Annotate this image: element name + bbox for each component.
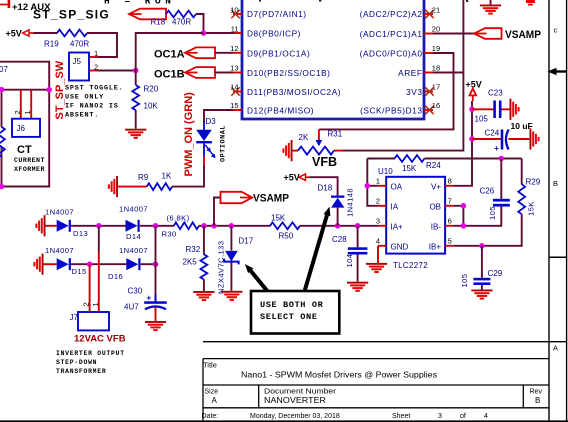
- svg-text:6: 6: [448, 216, 452, 225]
- diode D13: [57, 220, 71, 232]
- svg-text:D10(PB2/SS/OC1B): D10(PB2/SS/OC1B): [247, 68, 331, 78]
- svg-text:10 uF: 10 uF: [511, 121, 533, 131]
- svg-text:(ADC2/PC2)A2: (ADC2/PC2)A2: [360, 9, 423, 19]
- svg-text:D11(PB3/MOSI/OC2A): D11(PB3/MOSI/OC2A): [247, 87, 341, 97]
- wire R20 node down to resistor: [135, 71, 137, 86]
- svg-text:A: A: [212, 396, 218, 405]
- wire ground to R9: [118, 186, 147, 188]
- ground under C28: [347, 282, 368, 292]
- wire D14 to R30: [140, 225, 174, 227]
- svg-text:c: c: [554, 26, 558, 35]
- svg-text:D3: D3: [206, 117, 217, 126]
- svg-text:105: 105: [460, 274, 469, 288]
- wire pin 15 to LED: [204, 110, 233, 122]
- junction: [201, 30, 207, 36]
- svg-text:A: A: [553, 344, 558, 353]
- clipped text remnant ticks: [259, 0, 261, 2]
- svg-text:1N4148: 1N4148: [346, 188, 355, 217]
- potentiometer R31: [298, 147, 334, 155]
- port connector OC1B: [185, 67, 215, 78]
- J7 pin 1 wire: [98, 226, 100, 252]
- wire C26 bottom to pin 6: [453, 207, 501, 226]
- U10 pin 2 stub: [378, 205, 386, 207]
- capacitor C23: [493, 101, 501, 119]
- svg-text:07: 07: [0, 65, 8, 74]
- callout arrow to D17: [245, 264, 268, 291]
- wire CT row: [0, 89, 49, 91]
- wire left vertical lower: [1, 147, 3, 187]
- svg-text:IB+: IB+: [429, 242, 442, 251]
- svg-text:OA: OA: [391, 182, 403, 191]
- svg-text:H = RON: H = RON: [104, 0, 175, 7]
- wire wiper to pin 19: [319, 53, 453, 129]
- svg-text:D12(PB4/MISO): D12(PB4/MISO): [247, 105, 314, 115]
- svg-text:STEP-DOWN: STEP-DOWN: [56, 359, 97, 366]
- svg-text:D14: D14: [126, 232, 141, 241]
- svg-text:15K: 15K: [527, 201, 536, 216]
- resistor R19: [57, 30, 87, 37]
- wire left vertical upper: [1, 90, 3, 127]
- resistor R9: [147, 183, 172, 190]
- svg-text:R32: R32: [186, 245, 201, 254]
- capacitor C29: [473, 278, 490, 285]
- diode D15: [57, 258, 71, 270]
- svg-text:OB: OB: [429, 202, 441, 211]
- MCU pin 10 no-connect X: [231, 10, 239, 18]
- svg-text:VFB: VFB: [312, 155, 337, 169]
- svg-text:1: 1: [23, 110, 32, 114]
- svg-text:R50: R50: [279, 231, 294, 240]
- svg-text:+: +: [147, 294, 152, 303]
- wire pin 18 to vertical: [433, 72, 463, 74]
- title block separator line: [203, 341, 567, 343]
- svg-text:C28: C28: [332, 235, 347, 244]
- junction J7 pin1 tap: [96, 223, 102, 229]
- MCU pin 14 no-connect X: [231, 87, 239, 95]
- svg-text:R30: R30: [162, 230, 177, 239]
- svg-text:ST_SP_SIG: ST_SP_SIG: [33, 8, 110, 22]
- svg-text:SPST TOGGLE.: SPST TOGGLE.: [65, 85, 124, 93]
- svg-text:2: 2: [376, 196, 380, 205]
- svg-text:470R: 470R: [172, 18, 191, 27]
- capacitor C30 (polarized): [144, 294, 167, 310]
- wire C28 to ground: [357, 255, 359, 282]
- svg-text:14: 14: [230, 83, 238, 92]
- U10 pin 4 stub: [378, 245, 386, 247]
- wire R20 node up and right to ST_SP_SIG junction: [136, 33, 204, 71]
- capacitor C24 (polarized): [494, 130, 508, 154]
- MCU pin 17 no-connect X: [425, 87, 433, 95]
- MCU pin 18 stub: [424, 72, 433, 74]
- MCU pin 16 stub: [424, 109, 433, 111]
- U10 body: [386, 177, 445, 254]
- svg-text:R19: R19: [44, 40, 59, 49]
- svg-text:2K: 2K: [299, 133, 309, 142]
- power symbol +5V (left): [23, 30, 34, 36]
- svg-text:C24: C24: [485, 129, 500, 138]
- svg-text:1N4007: 1N4007: [45, 246, 74, 255]
- svg-text:12VAC VFB: 12VAC VFB: [74, 334, 126, 345]
- wire D18 to node: [337, 208, 339, 226]
- svg-text:3V3: 3V3: [406, 87, 422, 97]
- partial red symbol top right: [526, 0, 535, 6]
- J5 pin 2 stub: [89, 70, 98, 72]
- wire R32 to ground: [203, 279, 205, 291]
- wire C26 top: [500, 159, 502, 199]
- svg-text:105: 105: [488, 206, 497, 220]
- svg-text:(ADC0/PC0)A0: (ADC0/PC0)A0: [360, 48, 423, 58]
- svg-text:10: 10: [230, 6, 238, 15]
- svg-text:2: 2: [94, 63, 98, 72]
- J7 pin 2 wire: [89, 264, 91, 312]
- svg-text:NZX4V7C,133: NZX4V7C,133: [217, 241, 226, 294]
- MCU pin 16 no-connect X: [425, 106, 433, 114]
- J6 pin 1 wire: [30, 90, 32, 119]
- resistor R24: [395, 155, 425, 162]
- svg-text:1: 1: [376, 176, 380, 185]
- wire node to C28: [357, 226, 359, 248]
- wire R19 to J5 pin 1: [87, 33, 117, 57]
- wire C23 to ground: [502, 108, 510, 110]
- U10 pin 1 stub: [378, 185, 386, 187]
- MCU body: [242, 0, 424, 119]
- svg-text:(6.8K): (6.8K): [167, 213, 190, 222]
- junction pin 7: [461, 203, 467, 209]
- svg-text:(ADC1/PC1)A1: (ADC1/PC1)A1: [360, 29, 423, 39]
- svg-text:Monday, December 03, 2018: Monday, December 03, 2018: [250, 413, 340, 420]
- MCU pin 21 no-connect X: [425, 10, 433, 18]
- MCU pin 13 stub: [233, 72, 242, 74]
- svg-text:1: 1: [91, 302, 100, 306]
- svg-text:104: 104: [345, 254, 354, 268]
- svg-text:3: 3: [438, 413, 442, 420]
- svg-text:8: 8: [448, 176, 452, 185]
- ground at R31 (rotated): [282, 140, 292, 161]
- callout box USE BOTH OR SELECT ONE: [251, 291, 339, 334]
- svg-text:Rev: Rev: [530, 389, 543, 396]
- wire +5V to D18: [310, 177, 338, 195]
- junction J7 pin2 tap: [87, 261, 93, 267]
- ground row2 (rotated): [33, 254, 43, 275]
- junction VSAMP tap: [211, 223, 217, 229]
- wire C30 node vertical: [155, 226, 157, 295]
- svg-text:4: 4: [484, 413, 488, 420]
- U10 pin 5 stub: [445, 245, 453, 247]
- svg-text:4: 4: [376, 236, 380, 245]
- MCU pin 21 stub: [424, 13, 433, 15]
- svg-text:R24: R24: [426, 161, 441, 170]
- junction pin 1: [365, 183, 371, 189]
- svg-text:1N4007: 1N4007: [119, 205, 148, 214]
- svg-text:IB-: IB-: [431, 222, 442, 231]
- ground under R20: [125, 129, 146, 139]
- wire R31 to AREF pin 18: [343, 0, 463, 151]
- svg-text:D13: D13: [73, 229, 88, 238]
- svg-text:5: 5: [448, 236, 452, 245]
- R31 wiper arrow: [316, 129, 323, 146]
- svg-text:V+: V+: [431, 182, 441, 191]
- svg-text:D9(PB1/OC1A): D9(PB1/OC1A): [247, 48, 310, 58]
- ground under D17: [221, 291, 242, 301]
- wire C24 to ground: [509, 138, 530, 140]
- J7 pin 1 stub: [98, 252, 100, 312]
- wire node to R32: [203, 226, 205, 255]
- MCU pin 17 stub: [424, 91, 433, 93]
- wire +5V to R19: [34, 32, 58, 34]
- ground row1 (rotated): [35, 215, 45, 236]
- svg-text:D8(PB0/ICP): D8(PB0/ICP): [247, 29, 301, 39]
- svg-text:GND: GND: [391, 242, 409, 251]
- svg-text:1K: 1K: [162, 172, 172, 181]
- svg-text:AREF: AREF: [398, 68, 422, 78]
- U10 pin 8 stub: [445, 185, 453, 187]
- svg-text:Document Number: Document Number: [264, 389, 337, 396]
- MCU pin 20 stub: [424, 33, 433, 35]
- wire node to D17: [230, 226, 232, 251]
- svg-text:C23: C23: [488, 88, 503, 97]
- wire D15 to D16: [71, 263, 126, 265]
- svg-text:D7(PD7/AIN1): D7(PD7/AIN1): [247, 9, 307, 19]
- svg-text:TLC2272: TLC2272: [393, 261, 428, 270]
- svg-text:17: 17: [432, 83, 440, 92]
- svg-text:20: 20: [432, 25, 440, 34]
- MCU pin 10 stub: [233, 13, 242, 15]
- wire ST_SP_SIG row to MCU pin 11: [204, 32, 235, 34]
- svg-text:18: 18: [432, 64, 440, 73]
- svg-text:1N4007: 1N4007: [119, 246, 148, 255]
- svg-text:R20: R20: [144, 85, 159, 94]
- diode D18 (1N4148, cathode up): [331, 196, 344, 208]
- svg-text:NANOVERTER: NANOVERTER: [264, 396, 326, 405]
- wire pin1-pin2 feedback link: [367, 159, 378, 206]
- svg-text:USE BOTH OR: USE BOTH OR: [260, 300, 324, 310]
- junction C30 link: [153, 223, 159, 229]
- resistor R32: [201, 254, 208, 279]
- svg-text:R9: R9: [138, 173, 149, 182]
- title block outline: [203, 359, 549, 421]
- port connector ST_SP_SIG: [129, 9, 166, 20]
- svg-text:D18: D18: [318, 184, 333, 193]
- MCU pin 14 stub: [233, 91, 242, 93]
- wire pin 20 to VSAMP port: [433, 33, 474, 35]
- svg-text:IA+: IA+: [391, 222, 404, 231]
- MCU pin 11 stub: [234, 32, 242, 34]
- wire R20 to ground: [135, 110, 137, 129]
- svg-text:R18: R18: [151, 18, 166, 27]
- ground under R32: [193, 291, 214, 301]
- svg-text:ABSENT.: ABSENT.: [65, 112, 99, 120]
- ground under C29: [471, 290, 492, 300]
- svg-text:Nano1 - SPWM Mosfet Drivers @: Nano1 - SPWM Mosfet Drivers @ Power Supp…: [241, 369, 437, 379]
- svg-text:10K: 10K: [144, 102, 159, 111]
- wire J5 pin 2 to R20 node: [98, 70, 136, 72]
- power symbol +5V (middle): [299, 174, 310, 180]
- junction pin 6: [461, 223, 467, 229]
- wire R29 drop: [521, 159, 523, 185]
- svg-text:OC1B: OC1B: [154, 68, 185, 80]
- wire ground to D15: [44, 263, 57, 265]
- svg-text:SELECT ONE: SELECT ONE: [260, 312, 318, 322]
- wire D16 to C30 node: [141, 263, 156, 265]
- junction C24 tap: [469, 136, 475, 142]
- LED D3: [196, 122, 215, 167]
- junction C30 node: [153, 261, 159, 267]
- wire pin 1 to link: [367, 185, 378, 187]
- port connector OC1A: [185, 47, 215, 58]
- wire R30 to R50: [199, 225, 271, 227]
- zener diode D17: [224, 251, 238, 265]
- svg-text:IA: IA: [391, 202, 399, 211]
- svg-text:105: 105: [475, 115, 489, 124]
- resistor R50: [270, 222, 300, 229]
- connector J5: [69, 53, 89, 81]
- J6 pin 2 wire: [20, 90, 22, 119]
- connector J7: [78, 312, 109, 330]
- connector J6: [12, 119, 40, 137]
- svg-text:INVERTER OUTPUT: INVERTER OUTPUT: [56, 350, 125, 357]
- resistor R29: [518, 184, 525, 214]
- callout arrow to D18: [305, 207, 331, 292]
- svg-text:J6: J6: [17, 124, 26, 133]
- MCU pin 19 stub: [424, 52, 433, 54]
- wire C30 to ground: [155, 307, 157, 321]
- svg-text:PWM_ON (GRN): PWM_ON (GRN): [183, 92, 195, 177]
- J5 pin 1 stub: [89, 56, 98, 58]
- wire R50 to op-amp pin 3: [300, 225, 378, 227]
- svg-text:XFORMER: XFORMER: [14, 166, 45, 173]
- ground right of C23 (rotated): [510, 99, 520, 120]
- capacitor C26: [493, 199, 510, 207]
- svg-text:+5V: +5V: [6, 29, 22, 39]
- wire OC1A to pin 12: [215, 52, 233, 54]
- ground under C30: [145, 321, 166, 331]
- svg-text:CURRENT: CURRENT: [14, 157, 45, 164]
- port connector VSAMP (right pointing): [221, 192, 253, 203]
- wire C24: [472, 138, 502, 140]
- wire D17 to ground: [230, 263, 232, 291]
- ground top middle: [490, 0, 492, 5]
- U10 pin 6 stub: [445, 225, 453, 227]
- svg-text:D16: D16: [108, 272, 123, 281]
- U10 pin 7 stub: [445, 205, 453, 207]
- diode D14: [126, 220, 140, 232]
- svg-text:4U7: 4U7: [124, 303, 139, 312]
- svg-text:R31: R31: [328, 130, 343, 139]
- svg-text:R29: R29: [526, 178, 541, 187]
- junction D17 tap: [229, 223, 235, 229]
- svg-text:15K: 15K: [402, 164, 417, 173]
- svg-text:16: 16: [432, 101, 440, 110]
- junction R32: [201, 223, 207, 229]
- svg-text:2: 2: [13, 110, 22, 114]
- diode D16: [126, 258, 140, 270]
- wire R31 right stub: [334, 150, 343, 152]
- title block bottom border: [0, 420, 568, 422]
- wire ground to R31: [293, 150, 299, 152]
- junction C23 tap: [469, 107, 475, 113]
- svg-text:15: 15: [230, 101, 238, 110]
- capacitor C28: [348, 247, 368, 254]
- svg-text:C26: C26: [480, 187, 495, 196]
- wire node to VSAMP port: [214, 198, 221, 226]
- wire C23: [472, 108, 495, 110]
- ground at pin 4: [366, 263, 387, 273]
- wire LED to R9 corner: [172, 166, 204, 187]
- junction: [46, 87, 52, 93]
- MCU pin 15 stub: [233, 109, 242, 111]
- svg-text:Size: Size: [205, 389, 219, 396]
- border: right outer vertical line: [566, 0, 568, 422]
- svg-text:+5V: +5V: [466, 80, 482, 90]
- wire pin7 to pin6 link: [453, 206, 463, 226]
- power symbol +5V up arrow: [470, 89, 477, 101]
- wire link to R24: [367, 158, 395, 160]
- svg-text:Sheet: Sheet: [392, 413, 410, 420]
- svg-text:(SCK/PB5)D13: (SCK/PB5)D13: [360, 105, 422, 115]
- svg-text:J7: J7: [70, 313, 79, 322]
- wire D13 to D14: [71, 225, 126, 227]
- ground right of C24 (rotated): [530, 128, 540, 149]
- svg-text:CT: CT: [17, 144, 32, 156]
- svg-text:470R: 470R: [70, 40, 89, 49]
- partial resistor at left edge: [0, 127, 5, 157]
- svg-text:+5V: +5V: [284, 172, 300, 182]
- wire R18 to corner: [196, 14, 204, 33]
- svg-text:B: B: [553, 179, 558, 188]
- svg-text:C30: C30: [128, 287, 143, 296]
- wire C29 to ground: [481, 285, 483, 290]
- svg-text:21: 21: [432, 6, 440, 15]
- wire top loop: [0, 62, 49, 187]
- junction C28 tap: [355, 223, 361, 229]
- wire +5V to V+ pin 8: [453, 101, 472, 186]
- svg-text:B: B: [535, 396, 540, 405]
- port connector VSAMP top: [474, 28, 502, 39]
- wire OC1B to pin 13: [215, 72, 233, 74]
- svg-text:15K: 15K: [271, 213, 286, 222]
- svg-text:D17: D17: [239, 236, 254, 245]
- junction C26 top: [499, 156, 505, 162]
- svg-text:of: of: [460, 413, 466, 420]
- ground at R9 (rotated): [108, 176, 118, 197]
- wire R29 to pin 5: [453, 214, 521, 246]
- junction D18 tap: [335, 223, 341, 229]
- resistor R30: [174, 222, 199, 229]
- svg-text:13: 13: [230, 64, 238, 73]
- svg-text:19: 19: [432, 44, 440, 53]
- svg-text:Title: Title: [203, 361, 217, 370]
- svg-text:OC1A: OC1A: [154, 49, 185, 61]
- wire R24 to R29 corner: [425, 158, 522, 160]
- svg-text:2K5: 2K5: [183, 258, 198, 267]
- power symbol +12 AUX (cut at top): [0, 0, 10, 8]
- svg-text:USE ONLY: USE ONLY: [65, 94, 104, 102]
- svg-text:3: 3: [376, 216, 380, 225]
- junction at R20 node: [133, 68, 139, 74]
- svg-text:VSAMP: VSAMP: [253, 193, 289, 205]
- junction: [0, 184, 4, 190]
- border: right inner vertical line: [548, 0, 550, 422]
- svg-text:12: 12: [230, 44, 238, 53]
- svg-text:1N4007: 1N4007: [45, 208, 74, 217]
- wire pin 4 to ground: [377, 246, 379, 263]
- border: black arrow marker: [548, 68, 567, 75]
- svg-text:D15: D15: [72, 267, 87, 276]
- svg-text:1: 1: [94, 49, 98, 58]
- svg-text:+: +: [494, 144, 499, 153]
- svg-text:2: 2: [82, 302, 91, 306]
- resistor R20: [132, 85, 139, 110]
